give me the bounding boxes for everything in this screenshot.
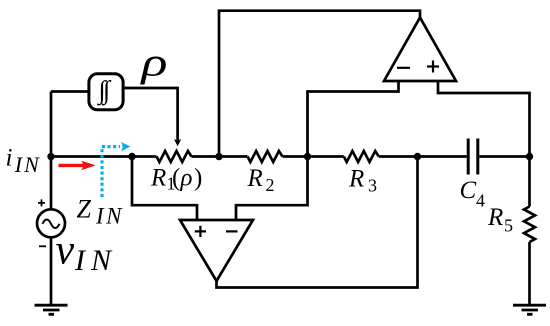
capacitor C4 plates xyxy=(468,139,478,175)
wire: U1 non-inverting input to node after Zin xyxy=(132,157,197,221)
wire: main horizontal bus segments xyxy=(51,155,530,158)
op-amp U1 (middle, apex down) xyxy=(180,220,253,281)
svg-text:3: 3 xyxy=(368,176,377,196)
arrow head onto R1 (rho control) xyxy=(174,139,181,146)
svg-text:5: 5 xyxy=(504,216,513,236)
svg-text:Z: Z xyxy=(77,194,92,223)
svg-text:R: R xyxy=(150,165,166,192)
wire: left vertical from integrator corner through node to source xyxy=(50,92,53,210)
svg-text:C: C xyxy=(460,177,477,204)
svg-text:R: R xyxy=(487,204,503,231)
wire: U2 non-inverting input to node C4 right xyxy=(438,81,530,157)
svg-text:i: i xyxy=(6,144,13,171)
node B (Zin measurement node) xyxy=(128,153,135,160)
svg-text:IN: IN xyxy=(95,204,124,229)
svg-text:4: 4 xyxy=(476,191,485,211)
U1 plus sign xyxy=(195,226,206,237)
wire: source bottom to ground xyxy=(50,237,53,305)
U2 plus sign xyxy=(427,61,439,73)
svg-text:∫: ∫ xyxy=(101,76,112,106)
svg-text:ρ: ρ xyxy=(180,165,193,192)
plus sign of source xyxy=(38,199,45,206)
ground (right) xyxy=(513,305,546,314)
ground (left) xyxy=(35,305,68,314)
svg-text:R: R xyxy=(348,166,364,193)
op-amp U2 (top, apex up) xyxy=(384,18,456,82)
svg-text:(: ( xyxy=(172,165,180,192)
node D (R2-R3 / both op-amp inverting inputs) xyxy=(304,153,311,160)
wire: U1 output feedback to node R3C4 xyxy=(217,157,418,288)
svg-text:R: R xyxy=(247,165,263,192)
U2 minus sign xyxy=(397,67,410,69)
wire: integrator right lead + drop to R1 arrow xyxy=(123,88,178,140)
resistor R2 xyxy=(248,151,283,162)
node F (C4-R5 / U2 non-inverting) xyxy=(526,153,533,160)
resistor R5 (vertical) xyxy=(524,207,535,243)
svg-text:): ) xyxy=(194,165,202,192)
wire: U1 inverting input to node R2R3 xyxy=(236,157,308,221)
svg-text:IN: IN xyxy=(74,244,117,277)
svg-text:IN: IN xyxy=(14,152,41,177)
integrator box xyxy=(89,74,123,110)
node E (R3-C4 / U1 output) xyxy=(414,153,421,160)
voltage source vIN circle xyxy=(37,209,65,237)
wire: integrator left lead xyxy=(51,90,89,93)
minus sign of source xyxy=(39,245,46,247)
current arrow iIN (red) xyxy=(59,161,96,171)
node C (R1-R2 / top loop) xyxy=(215,153,222,160)
wire: U2 inverting input to node R2R3 xyxy=(308,81,399,157)
sine symbol inside source xyxy=(43,220,60,229)
wire: node C4 right down to R5 and R5 to ground xyxy=(528,157,531,306)
resistor R1 xyxy=(157,151,192,162)
svg-text:v: v xyxy=(56,228,75,274)
wire: top feedback loop (node R1R2 up, across top, to op-amp U2 output) xyxy=(219,11,420,157)
svg-text:2: 2 xyxy=(266,175,275,195)
svg-text:ρ: ρ xyxy=(139,40,167,85)
node A (iIN node) xyxy=(47,153,54,160)
resistor R3 xyxy=(344,151,379,162)
impedance probe arrow Zin (blue dotted) xyxy=(102,142,130,197)
U1 minus sign xyxy=(226,230,238,232)
